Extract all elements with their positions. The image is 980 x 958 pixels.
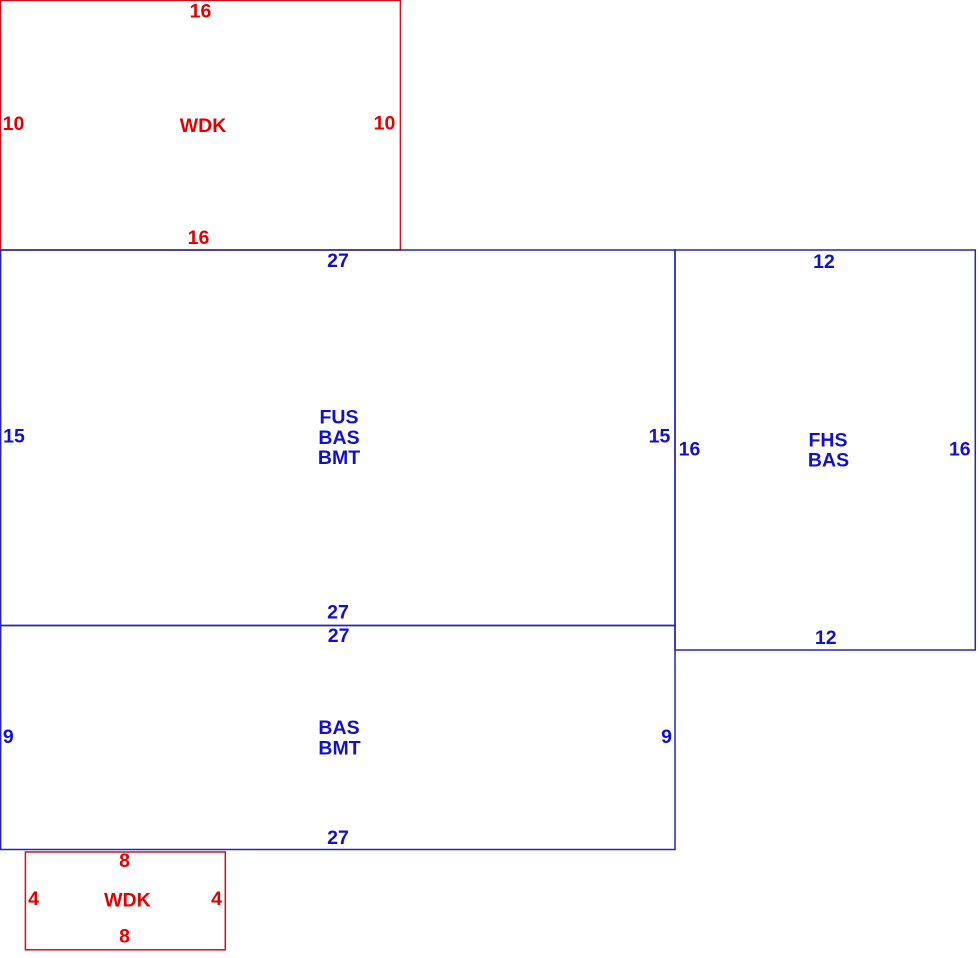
svg-text:FHS: FHS (809, 429, 848, 451)
svg-text:15: 15 (649, 426, 671, 448)
svg-text:27: 27 (327, 250, 349, 272)
area WDK (upper deck outline) (1, 1, 401, 251)
area WDK (lower deck outline) (25, 852, 225, 950)
svg-text:BAS: BAS (318, 717, 359, 739)
svg-text:10: 10 (3, 113, 25, 135)
svg-text:FUS: FUS (320, 406, 359, 428)
svg-text:9: 9 (3, 726, 14, 748)
svg-text:BAS: BAS (808, 450, 849, 472)
svg-text:BMT: BMT (318, 738, 360, 760)
svg-text:9: 9 (661, 726, 672, 748)
svg-text:16: 16 (190, 1, 212, 23)
svg-text:15: 15 (3, 426, 25, 448)
svg-text:4: 4 (211, 888, 222, 910)
svg-text:BAS: BAS (318, 427, 359, 449)
area FUS/BAS/BMT (main first story outline) (1, 250, 675, 626)
area FHS/BAS (right half story outline) (675, 250, 975, 650)
svg-text:27: 27 (327, 602, 349, 624)
svg-text:WDK: WDK (104, 890, 151, 912)
svg-text:4: 4 (28, 888, 39, 910)
svg-text:27: 27 (328, 625, 350, 647)
svg-text:8: 8 (119, 850, 130, 872)
svg-text:BMT: BMT (318, 447, 360, 469)
svg-text:16: 16 (188, 227, 210, 249)
svg-text:16: 16 (679, 438, 701, 460)
svg-text:10: 10 (374, 113, 396, 135)
svg-text:12: 12 (815, 627, 837, 649)
svg-text:WDK: WDK (180, 115, 227, 137)
area BAS/BMT (lower basement outline) (1, 626, 675, 850)
svg-text:16: 16 (949, 438, 971, 460)
svg-text:27: 27 (327, 827, 349, 849)
svg-text:12: 12 (813, 251, 835, 273)
svg-text:8: 8 (119, 925, 130, 947)
